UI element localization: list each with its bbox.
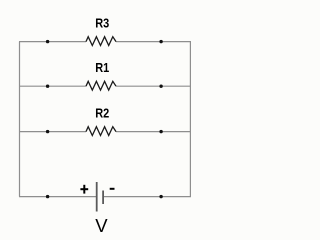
node dot row2-right [159, 85, 162, 88]
node dot row3-left [46, 130, 49, 133]
wire: left vertical [19, 42, 21, 197]
node dot top-left [46, 40, 49, 43]
battery V short plate (-) [102, 191, 104, 205]
wire: bottom row right segment [104, 196, 191, 198]
wire: top row left segment [19, 41, 86, 43]
node dot bottom-right [159, 195, 162, 198]
svg-text:R3: R3 [95, 15, 109, 30]
battery minus sign [110, 188, 115, 190]
wire: right vertical [189, 42, 191, 197]
battery plus sign [80, 185, 88, 194]
resistor R1 [86, 81, 116, 90]
node dot top-right [159, 40, 162, 43]
wire: row3 left segment [19, 131, 86, 133]
svg-text:R1: R1 [95, 60, 109, 75]
node dot row2-left [46, 85, 49, 88]
resistor R3 [86, 37, 116, 46]
wire: top row right segment [116, 41, 191, 43]
wire: bottom row left segment [19, 196, 96, 198]
svg-text:R2: R2 [95, 105, 109, 120]
wire: row2 right segment [116, 85, 191, 87]
svg-text:V: V [95, 215, 108, 236]
resistor R2 [86, 127, 116, 136]
wire: row2 left segment [19, 85, 86, 87]
node dot bottom-left [46, 195, 49, 198]
node dot row3-right [159, 130, 162, 133]
wire: row3 right segment [116, 131, 191, 133]
battery V long plate (+) [96, 182, 98, 212]
